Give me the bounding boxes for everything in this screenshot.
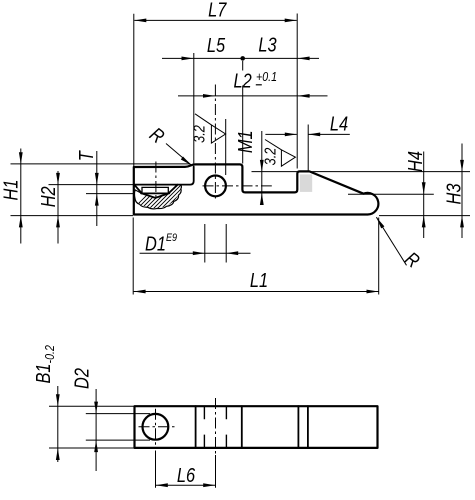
dimension D2: [70, 368, 150, 471]
extension line L7 left: [133, 14, 135, 166]
dimension L5 L3 chain: [162, 33, 319, 61]
slot top edge and step wall: [134, 167, 194, 185]
radius R leader bottom right: [376, 217, 424, 272]
svg-text:L2: L2: [233, 69, 251, 92]
top view hole horizontal centerline: [139, 426, 177, 428]
extension line right edge (L7/L3/L2): [296, 14, 298, 169]
top view boss right edge: [241, 406, 243, 448]
rubber insert hatched section: [128, 184, 210, 214]
svg-text:H2: H2: [36, 186, 59, 207]
dimension D1 E9: [140, 224, 251, 263]
insert centerline: [155, 162, 157, 201]
svg-text:H1: H1: [0, 180, 22, 201]
extension line bottom right: [379, 215, 470, 217]
top view insert hole D2: [143, 414, 169, 440]
svg-text:T: T: [75, 150, 98, 162]
roughness symbol 3.2 at hole D1: [191, 114, 225, 175]
dimension H3: [442, 144, 465, 239]
extension line slope end level: [348, 193, 434, 195]
hole D1 vertical centerline: [214, 85, 216, 200]
dimension M1: [233, 130, 263, 205]
svg-text:L6: L6: [177, 463, 196, 486]
top view step edge: [297, 406, 299, 448]
top view hole vertical centerline: [155, 409, 157, 445]
extension line top right surface: [310, 171, 470, 173]
top view hidden slot edges: [204, 407, 226, 448]
top view outline: [135, 406, 378, 448]
svg-text:3.2: 3.2: [262, 148, 279, 166]
dimension L6: [156, 451, 216, 488]
svg-text:L3: L3: [258, 33, 276, 56]
svg-text:3.2: 3.2: [191, 125, 208, 143]
insert notch bottom line (T reference): [141, 192, 169, 194]
svg-text:H4: H4: [403, 151, 426, 172]
dimension L4: [265, 112, 349, 136]
dovetail right wall: [169, 185, 178, 194]
extension line L5 left: [193, 53, 195, 164]
extension line boss top left: [11, 163, 190, 165]
top view boss left edge: [195, 406, 197, 448]
part body side view outline: [134, 164, 379, 214]
extension line bottom left: [11, 215, 134, 217]
roughness symbol 3.2 at step face: [262, 140, 295, 167]
svg-text:M1: M1: [233, 130, 256, 153]
svg-text:L5: L5: [207, 33, 226, 56]
dimension H4: [403, 151, 426, 238]
svg-text:L4: L4: [330, 112, 348, 135]
svg-text:D2: D2: [70, 368, 93, 389]
dimension T: [75, 150, 99, 226]
svg-text:L1: L1: [250, 268, 268, 291]
hole D1 horizontal centerline: [203, 185, 272, 187]
dimension L1: [134, 268, 379, 293]
dimension B1: [31, 345, 133, 462]
hole D1 circle: [205, 176, 226, 197]
extension line step edge: [242, 61, 244, 164]
extension line L1 right: [378, 218, 380, 295]
insert V groove: [142, 193, 169, 198]
dimension H1: [0, 149, 23, 244]
extension line L1 left: [132, 218, 134, 295]
svg-text:L7: L7: [208, 0, 227, 21]
dovetail left wall: [134, 185, 142, 194]
gray insert pad region: [300, 174, 312, 192]
M1 depth reference line: [252, 171, 298, 173]
top view slope start edge: [307, 406, 309, 448]
dimension L7: [134, 0, 296, 22]
extension line L4 right: [307, 125, 309, 172]
svg-text:+0.1: +0.1: [256, 69, 277, 84]
extension line notch bottom left: [86, 193, 134, 195]
insert notch rectangle: [142, 187, 168, 193]
dimension H2: [36, 171, 60, 244]
radius R leader top left: [146, 122, 192, 165]
svg-text:H3: H3: [442, 184, 465, 205]
top view slot centerline: [215, 398, 217, 455]
dimension L2 with tolerance: [178, 69, 328, 98]
extension line slot top left: [49, 184, 134, 186]
